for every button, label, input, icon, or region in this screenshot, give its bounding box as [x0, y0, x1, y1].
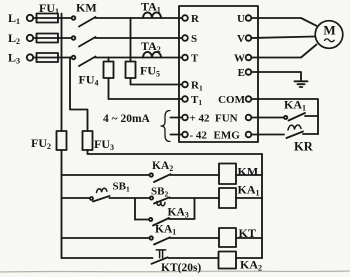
- svg-text:T: T: [191, 53, 199, 65]
- node L1 terminal: [27, 15, 33, 21]
- svg-text:V: V: [237, 33, 245, 45]
- transformer TA2: [143, 52, 161, 58]
- wire L2 to KM: [33, 37, 71, 39]
- wire tap to FU2: [61, 14, 63, 132]
- wire FU3 to right rail: [88, 150, 263, 154]
- wire tap to FU3: [70, 58, 88, 132]
- wire KA3 up to row B: [169, 198, 195, 219]
- brace 4-20mA: [161, 111, 170, 142]
- wire coil KT to rail: [236, 237, 262, 239]
- fuse FU1 phase 3: [37, 53, 59, 62]
- coil KT: [219, 228, 236, 247]
- wire E to ground: [252, 72, 302, 81]
- relay contact KA1 row D: [150, 236, 153, 239]
- wire KA1 to loop: [305, 115, 318, 117]
- wire right control rail: [261, 154, 263, 258]
- scan artifact bottom: [0, 271, 350, 272]
- svg-text:KR: KR: [294, 140, 314, 154]
- wire brace to plus42: [171, 117, 183, 119]
- pin plus42: [182, 115, 188, 121]
- wire row B: [62, 197, 91, 199]
- pin V: [246, 35, 252, 41]
- pin COM: [246, 96, 252, 102]
- wire row A: [62, 174, 150, 176]
- pin E: [246, 69, 252, 75]
- relay contact KA1: [284, 116, 287, 119]
- wire left control rail: [61, 150, 63, 258]
- fuse FU5: [126, 62, 136, 79]
- coil KA1: [219, 188, 236, 208]
- pin W: [246, 55, 252, 61]
- wire row E: [62, 257, 153, 259]
- wire coil KM to rail: [236, 174, 262, 176]
- wire row D: [62, 237, 150, 239]
- wire KR to loop: [303, 133, 318, 135]
- wire EMG to KR contact: [252, 134, 285, 136]
- wire KA1 to coil KT: [170, 237, 219, 239]
- pin R: [182, 15, 188, 21]
- thermal contact KR: [288, 125, 301, 130]
- pin T1: [182, 96, 188, 102]
- relay contact KA3: [149, 218, 152, 221]
- wire V to motor: [252, 37, 316, 39]
- svg-text:KT(20s): KT(20s): [161, 262, 201, 274]
- svg-text:- 42: - 42: [190, 130, 208, 142]
- pin R1: [182, 82, 188, 88]
- pushbutton SB1: [90, 197, 93, 200]
- wire W to motor: [252, 45, 317, 58]
- contactor KM contact 3: [72, 56, 76, 60]
- wire coil KA2 to rail: [236, 257, 262, 259]
- transformer TA1: [143, 12, 161, 18]
- pin minus42: [182, 132, 188, 138]
- wire KM3 to T: [96, 57, 183, 59]
- fuse FU4: [104, 62, 114, 79]
- pin EMG: [246, 132, 252, 138]
- wire KT contact to coil KA2: [169, 257, 219, 259]
- motor M: [315, 21, 343, 49]
- wire KM1 to R: [96, 17, 183, 19]
- svg-text:COM: COM: [218, 94, 246, 106]
- inverter unit U1: [179, 6, 258, 142]
- svg-text:KM: KM: [76, 1, 97, 15]
- svg-text:E: E: [238, 67, 245, 79]
- svg-text:W: W: [234, 53, 245, 65]
- wire KA2 to coil KM: [171, 174, 220, 176]
- pushbutton SB2: [150, 196, 153, 199]
- wire FU4 to T1: [109, 78, 183, 99]
- pin T: [182, 55, 188, 61]
- fuse FU1 phase 1: [37, 14, 59, 23]
- fuse FU2: [57, 131, 67, 150]
- svg-text:R: R: [191, 13, 200, 25]
- contactor KM contact 2: [72, 36, 76, 40]
- wire tap T to FU4: [108, 58, 110, 62]
- wire brace to minus42: [171, 134, 183, 136]
- pin U: [246, 15, 252, 21]
- svg-text:4 ~ 20mA: 4 ~ 20mA: [103, 113, 151, 125]
- timed contact KT: [156, 250, 165, 258]
- wire SB2 to coil KA1: [170, 197, 220, 199]
- wire coil KA1 to rail: [236, 197, 262, 199]
- svg-text:M: M: [323, 23, 335, 38]
- wire FU5 to R1: [131, 78, 183, 85]
- wire KM2 to S: [96, 37, 183, 39]
- contactor KM contact 1: [72, 16, 76, 20]
- svg-text:KM: KM: [238, 165, 259, 179]
- wire L3 to KM: [33, 57, 71, 59]
- ground: [295, 81, 308, 87]
- svg-text:KT: KT: [239, 226, 256, 240]
- wire U to motor: [252, 18, 317, 26]
- wire branch down: [134, 198, 136, 220]
- fuse FU3: [83, 131, 93, 150]
- svg-text:S: S: [191, 33, 197, 45]
- wire branch to KA3: [135, 219, 149, 221]
- svg-text:EMG: EMG: [214, 130, 241, 142]
- coil KM: [219, 164, 236, 185]
- pin FUN: [246, 115, 252, 121]
- wire L1 to KM: [33, 17, 71, 19]
- relay contact KA2: [150, 173, 153, 176]
- wire SB1 to SB2: [110, 197, 151, 199]
- coil KA2: [219, 252, 237, 269]
- wire tap R to FU5: [130, 18, 132, 62]
- wire COM loop: [252, 99, 319, 134]
- svg-text:+ 42: + 42: [190, 113, 211, 125]
- svg-text:FUN: FUN: [215, 113, 238, 125]
- pin S: [182, 35, 188, 41]
- node L2 terminal: [27, 35, 33, 41]
- wire FUN to KA1 contact: [252, 117, 285, 119]
- fuse FU1 phase 2: [37, 34, 59, 43]
- svg-text:U: U: [237, 13, 245, 25]
- node L3 terminal: [27, 54, 33, 60]
